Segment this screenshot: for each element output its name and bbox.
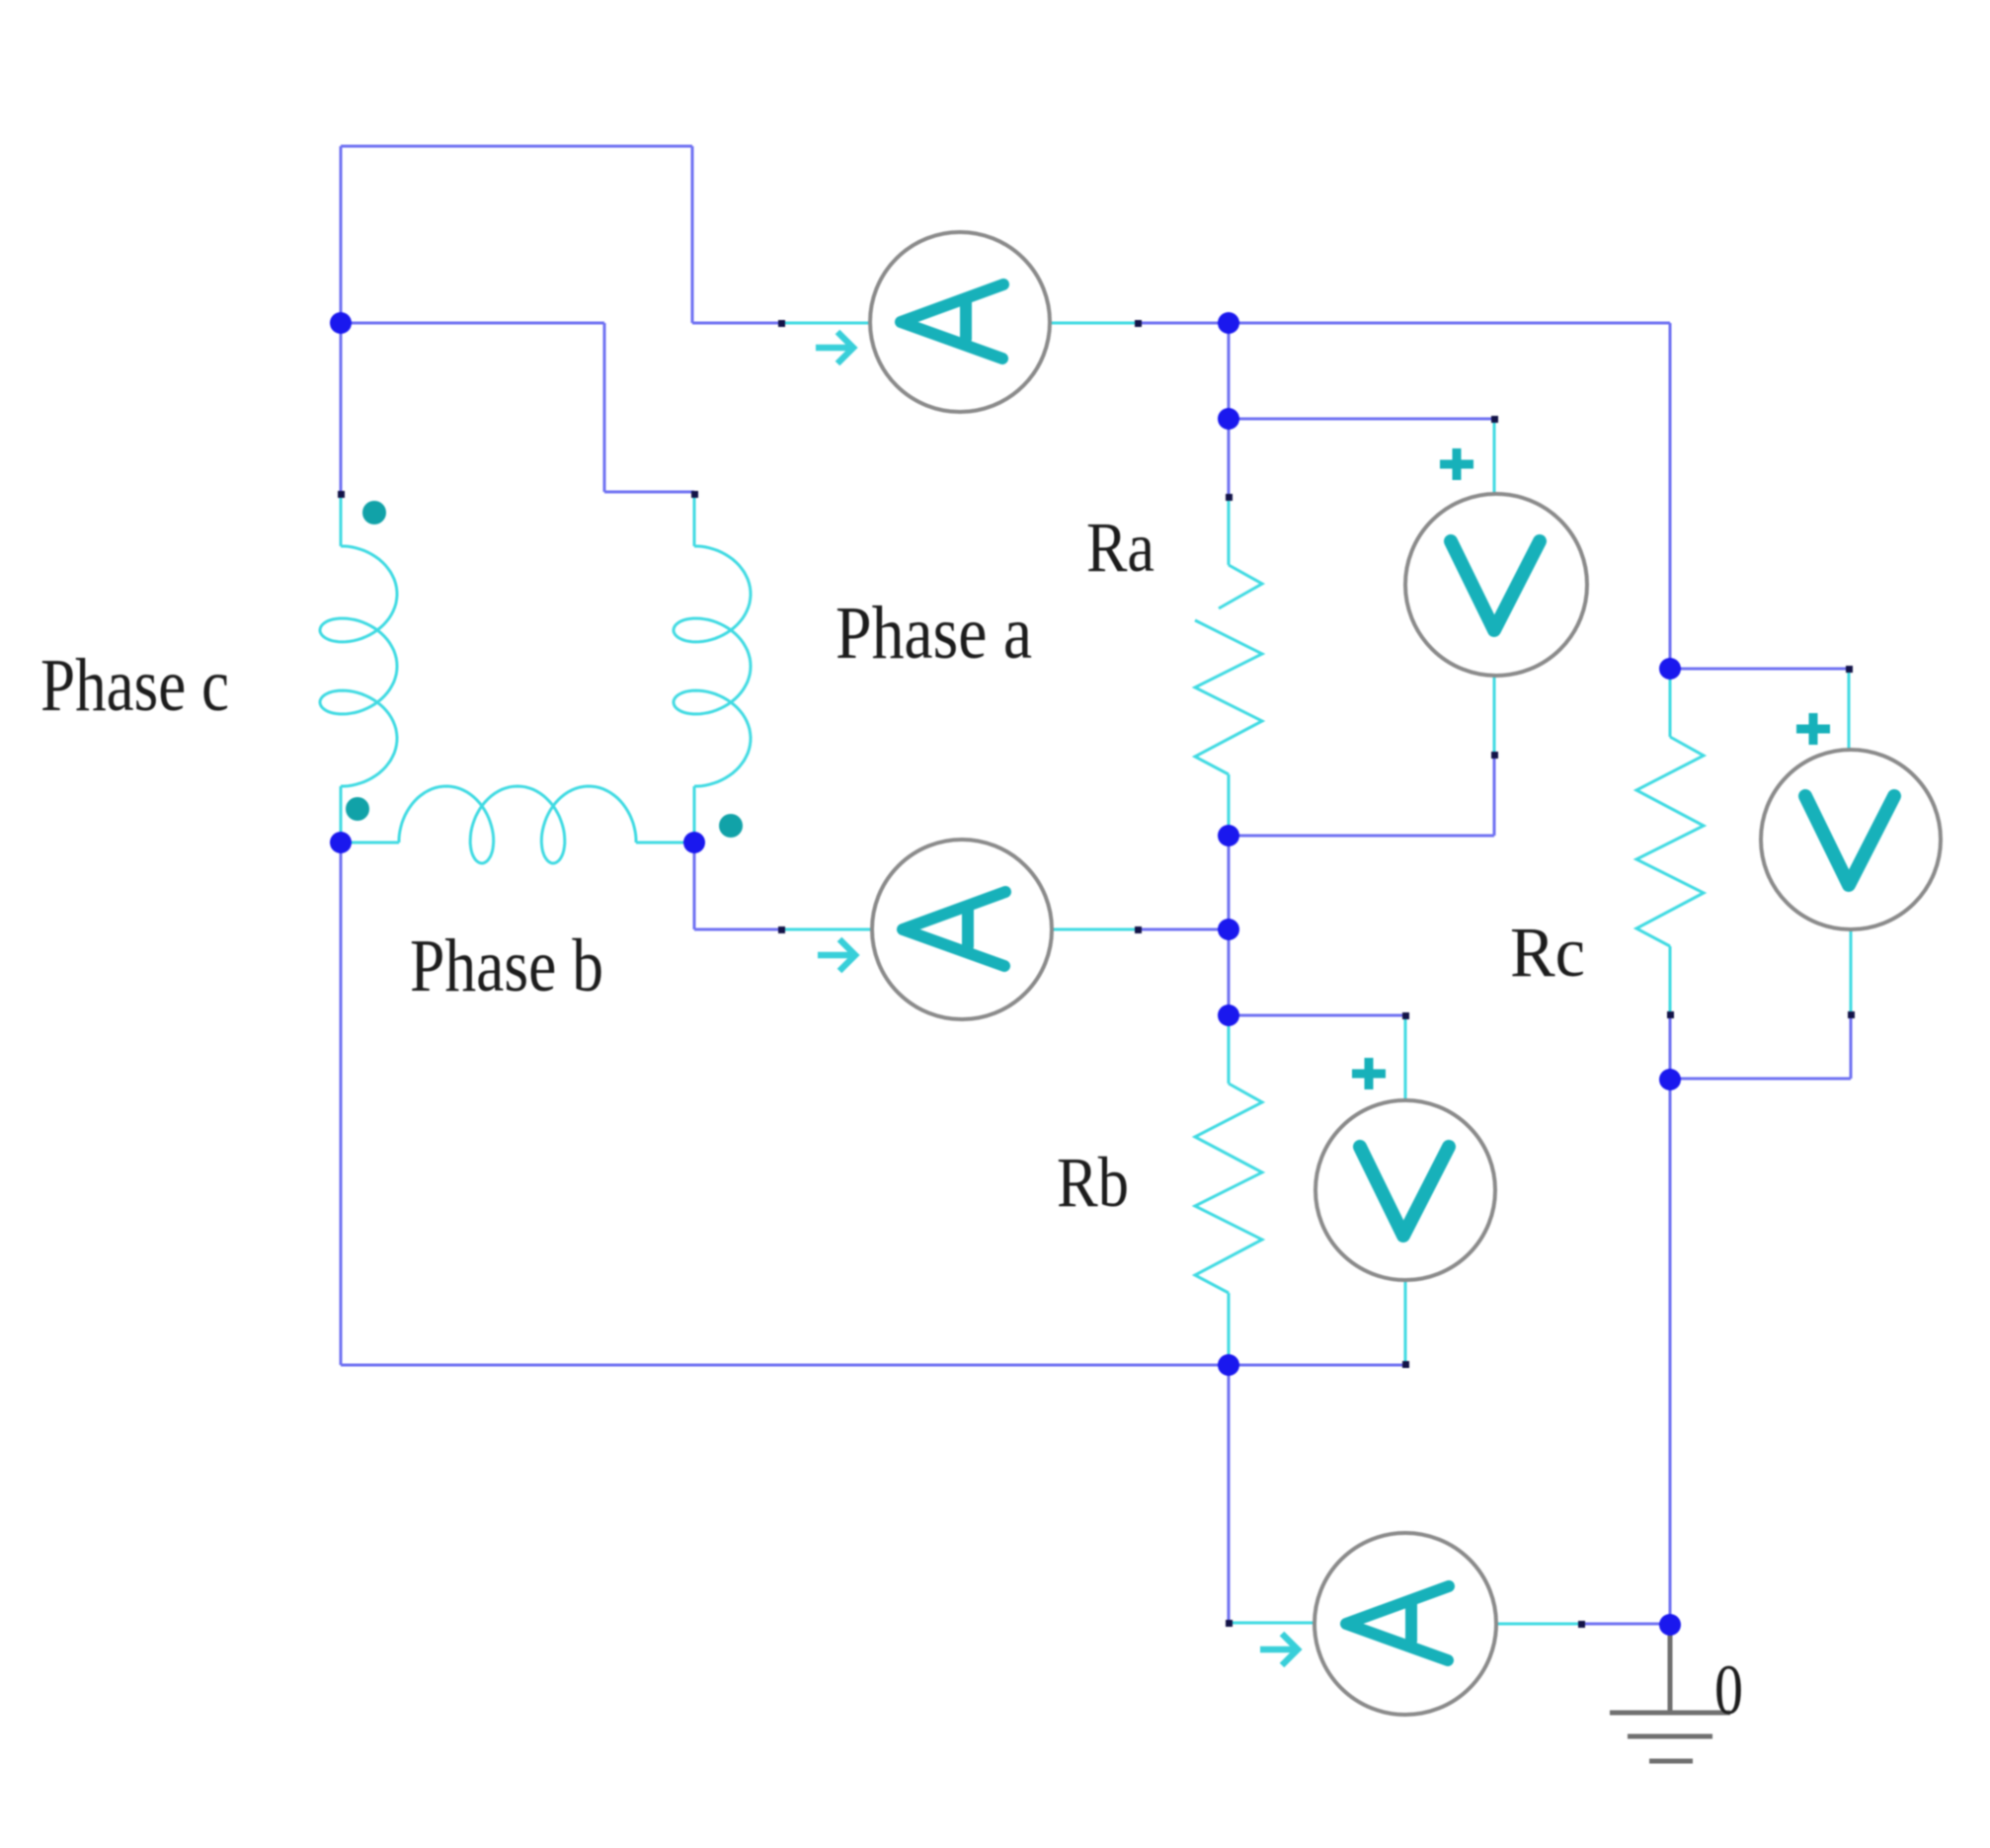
svg-text:Phase a: Phase a [836, 592, 1032, 675]
svg-text:Phase c: Phase c [40, 644, 229, 727]
svg-text:Rc: Rc [1510, 913, 1585, 992]
svg-text:Ra: Ra [1086, 508, 1154, 587]
svg-text:Phase b: Phase b [410, 924, 603, 1007]
svg-text:0: 0 [1714, 1650, 1743, 1729]
svg-text:Rb: Rb [1057, 1143, 1129, 1222]
